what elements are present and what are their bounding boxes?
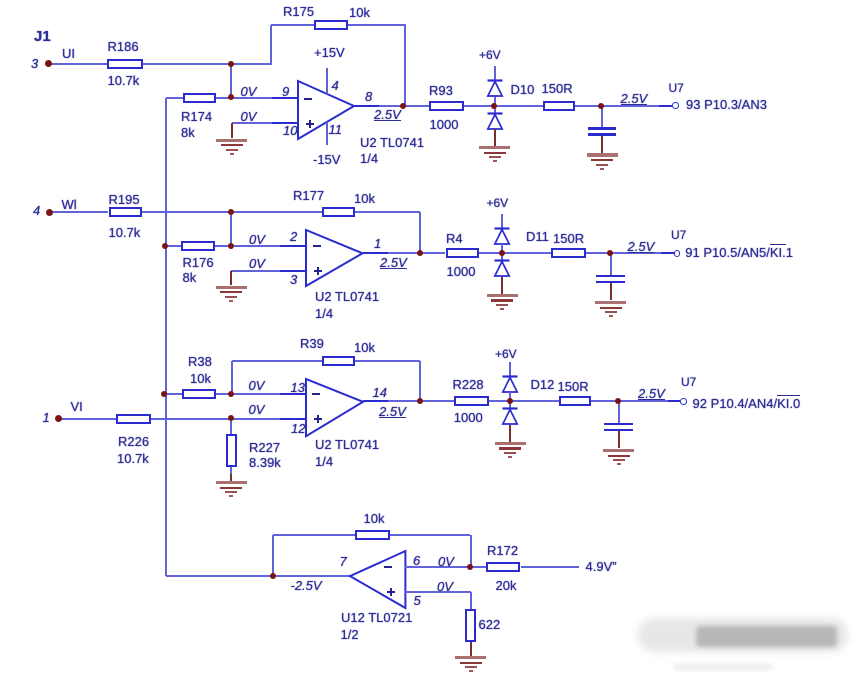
- diode D11 upper: [493, 227, 511, 246]
- ground stem (U2 pin10): [231, 123, 233, 139]
- wire node A1 down to inv input: [230, 64, 232, 98]
- pin stub U2.8: [354, 105, 379, 107]
- minus mark U12: [384, 566, 392, 568]
- label D11: [526, 230, 549, 243]
- wire R227 to ground: [230, 467, 232, 474]
- pin number 9: [282, 85, 289, 98]
- wire to output pad S1: [601, 105, 672, 107]
- pin number 8: [365, 90, 372, 103]
- ground (D12): [495, 442, 526, 445]
- net -15V: [313, 153, 340, 166]
- wire ground to U2 pin 3: [231, 270, 306, 272]
- wire U12 pin 6: [405, 566, 470, 568]
- value 10k (R175): [349, 6, 370, 19]
- pin number 12: [291, 422, 305, 435]
- value 10k (S4): [364, 512, 385, 525]
- net 0V (pin2): [249, 233, 265, 246]
- op-amp U12 TL0721: [347, 548, 408, 611]
- wire node to D12 lower: [509, 401, 511, 409]
- wire to R228: [420, 400, 453, 402]
- label 91 P10.5/AN5/KI.1: [685, 246, 793, 259]
- wire feedback right down: [470, 535, 472, 567]
- wire feedback down to output node: [404, 25, 406, 106]
- wire to output pad S2: [610, 252, 674, 254]
- wire D10 upper to node: [494, 97, 496, 106]
- pin number 13: [291, 381, 305, 394]
- wire feedback top left: [273, 534, 355, 536]
- label U2 TL0741: [360, 136, 424, 149]
- power pin 11 (-15V): [326, 122, 328, 145]
- power pin 4 (+15V): [326, 68, 328, 94]
- net UI: [62, 47, 75, 60]
- pin stub U2.13: [280, 393, 306, 395]
- pin stub U2.9: [272, 97, 298, 99]
- wire D11 upper to node: [501, 244, 503, 253]
- ground (cap S3): [603, 449, 634, 452]
- wire R39 right: [355, 360, 420, 362]
- net +6V (D12): [495, 348, 517, 360]
- label R227: [249, 441, 280, 454]
- wire +6V to D10: [494, 66, 496, 80]
- pin stub U2.12: [280, 418, 306, 420]
- pin number 10: [283, 124, 297, 137]
- wire R226 to node B3: [151, 418, 232, 420]
- net U7 (S1): [669, 82, 684, 94]
- resistor R227: [226, 434, 237, 468]
- label U2 TL0741 (S3): [315, 438, 379, 451]
- net Wl: [62, 198, 77, 211]
- ground (D11): [487, 294, 518, 297]
- net 0V (pin3): [249, 257, 265, 270]
- value 10k (R38): [190, 372, 211, 385]
- net 2.5V (U2C out): [379, 406, 406, 418]
- net VI: [71, 400, 83, 413]
- value 150R (S3): [558, 380, 589, 393]
- wire rail to R174: [166, 97, 183, 99]
- pin stub U2.3: [280, 270, 306, 272]
- ground stem (U2 pin3): [230, 271, 232, 285]
- label R39: [300, 337, 324, 350]
- label U12 TL0721: [341, 611, 412, 624]
- pin stub U2.2: [280, 245, 306, 247]
- diode D12 lower: [501, 407, 519, 426]
- value 8.39k (R227): [249, 456, 281, 469]
- diode D10 lower: [486, 112, 504, 131]
- net +6V (D11): [487, 197, 509, 209]
- wire node A2 down: [230, 212, 232, 246]
- wire J1.1 to R226: [58, 418, 116, 420]
- junction D11 node: [499, 250, 505, 256]
- junction output node S3: [417, 398, 423, 404]
- label R4: [446, 232, 463, 245]
- capacitor C (S3): [618, 401, 620, 422]
- ground (cap S1): [587, 153, 618, 156]
- ground stem (R227): [230, 474, 232, 481]
- junction node A2: [228, 209, 234, 215]
- ground (R227): [216, 481, 247, 484]
- label R186: [108, 40, 139, 53]
- wire to R93: [403, 105, 429, 107]
- ground (U2 pin10): [216, 139, 247, 142]
- value 8k (R174): [181, 126, 195, 139]
- value 1000 (R228): [454, 411, 483, 424]
- wire to R175 left: [271, 24, 314, 26]
- wire U2A output: [354, 105, 403, 107]
- label 1/4 (S2): [315, 307, 333, 320]
- pin stub U2.1: [363, 252, 389, 254]
- junction rail-R38: [161, 391, 167, 397]
- resistor R195: [109, 207, 142, 217]
- resistor R93: [429, 101, 464, 111]
- net +6V (D10): [479, 49, 501, 61]
- ground (R622): [455, 656, 486, 659]
- wire feedback down S2: [419, 212, 421, 253]
- pin stub pad 93: [659, 105, 672, 107]
- net U7 (S2): [671, 229, 686, 241]
- wire node to R172: [470, 566, 486, 568]
- capacitor C (S1): [601, 106, 603, 127]
- minus mark U2B: [313, 245, 321, 247]
- resistor R176: [181, 241, 214, 251]
- wire node B3 to R227: [230, 419, 232, 434]
- ground stem (D10): [494, 129, 496, 146]
- pin dot J1.4: [46, 209, 53, 216]
- wire R93 to D10 node: [464, 105, 495, 107]
- plus mark U2C: [314, 418, 322, 420]
- net 4.9V: [586, 560, 617, 573]
- value 1000 (R4): [447, 265, 476, 278]
- ground stem (D11): [501, 277, 503, 294]
- op-amp U2C TL0741: [303, 376, 366, 439]
- junction cap node S1: [598, 103, 604, 109]
- value 150R (S2): [553, 232, 584, 245]
- pin number 4: [332, 79, 339, 92]
- label R177: [293, 189, 324, 202]
- value 10.7k (R195): [109, 226, 141, 239]
- op-amp U2A TL0741: [295, 78, 357, 142]
- value 10k (R177): [354, 192, 375, 205]
- junction node A1: [228, 61, 234, 67]
- resistor R38: [182, 389, 216, 399]
- diode D11 lower: [493, 259, 511, 278]
- pin dot J1.3: [45, 60, 52, 67]
- junction output node S4: [270, 573, 276, 579]
- pin number 4 (J1): [33, 204, 40, 217]
- capacitor C (S2): [610, 253, 612, 274]
- plus mark U2B: [314, 270, 322, 272]
- resistor 150R (S1): [543, 101, 575, 111]
- pin stub U2.14: [363, 400, 388, 402]
- wire D12 node to 150R: [510, 400, 559, 402]
- wire R174 to node B1: [216, 97, 231, 99]
- net 0V (pin9): [241, 85, 257, 98]
- wire to U12 output apex: [273, 575, 350, 577]
- junction rail-R176: [162, 243, 168, 249]
- wire feedback top right: [390, 534, 471, 536]
- value 622: [479, 618, 501, 631]
- wire R172 to 4.9V: [521, 566, 579, 568]
- ground (cap S2): [595, 301, 626, 304]
- resistor 150R (S3): [559, 396, 591, 406]
- value 20k (R172): [496, 579, 517, 592]
- pin number 2: [290, 230, 297, 243]
- resistor 150R (S2): [551, 248, 586, 258]
- wire node to D10 lower: [494, 106, 496, 114]
- plus mark U2A: [306, 123, 314, 125]
- op-amp U2B TL0741: [303, 227, 365, 289]
- decorative watermark: [638, 618, 848, 652]
- wire R38 to node C3: [216, 393, 231, 395]
- value 1000 (R93): [430, 118, 459, 131]
- junction cap node S3: [615, 398, 621, 404]
- pin dot J1.1: [55, 415, 62, 422]
- wire U12 pin 5: [405, 591, 471, 593]
- value 10k (R39): [354, 341, 375, 354]
- wire R4 to D11 node: [479, 252, 502, 254]
- wire ground to U2 pin 10: [232, 122, 298, 124]
- wire R186 to node A1: [143, 63, 272, 65]
- wire D11 node to 150R: [502, 252, 551, 254]
- junction pin6 node: [467, 564, 473, 570]
- value 10.7k (R186): [108, 74, 140, 87]
- value 150R (S1): [542, 82, 573, 95]
- resistor R226: [116, 414, 151, 424]
- label D10: [511, 83, 535, 96]
- wire J1.4 to R195: [49, 211, 108, 213]
- junction D10 node: [491, 103, 497, 109]
- net 0V (pin10): [241, 110, 257, 123]
- junction node C3: [228, 391, 234, 397]
- junction output node S1: [400, 103, 406, 109]
- wire node C3 to U2 pin 13: [231, 393, 306, 395]
- wire R176 to node B2: [215, 245, 232, 247]
- resistor R172: [486, 562, 521, 572]
- net 2.5V (U2B out): [380, 257, 407, 269]
- junction node B1: [228, 94, 234, 100]
- wire node C3 up to R39: [231, 361, 233, 394]
- net 0V (pin12): [249, 403, 265, 416]
- net +15V: [314, 46, 345, 59]
- label 1/4 (S3): [315, 455, 333, 468]
- wire node B2 to U2 pin 2: [231, 245, 306, 247]
- pin number 1 (J1): [43, 411, 50, 424]
- plus mark U12: [387, 591, 395, 593]
- pin number 11: [329, 123, 343, 136]
- pin number 6: [413, 554, 420, 567]
- ground stem (D12): [509, 425, 511, 442]
- diode D10 upper: [486, 79, 504, 98]
- resistor R39: [322, 356, 356, 366]
- label R93: [429, 84, 453, 97]
- output pad 93: [672, 102, 679, 109]
- label D12: [531, 378, 555, 391]
- pin number 7: [340, 555, 347, 568]
- label R195: [109, 193, 140, 206]
- value 8k (R176): [183, 271, 197, 284]
- wire feedback down S3: [419, 361, 421, 401]
- label 1/2: [341, 628, 359, 641]
- label 1/4: [360, 152, 378, 165]
- pin stub U2.10: [272, 122, 298, 124]
- wire R228 to D12 node: [489, 400, 510, 402]
- value 10.7k (R226): [117, 452, 149, 465]
- label U2 TL0741 (S2): [315, 290, 379, 303]
- wire 150R to cap node S3: [591, 400, 618, 402]
- wire J1.3 to R186: [49, 63, 108, 65]
- wire R177 right: [355, 211, 420, 213]
- junction cap node S2: [607, 250, 613, 256]
- net 2.5V (out S2): [628, 241, 655, 253]
- wire rail to U12 output: [166, 575, 273, 577]
- net 2.5V (out S3): [638, 388, 665, 400]
- pin number 5: [414, 594, 421, 607]
- pin number 3 (J1): [31, 57, 38, 70]
- net 2.5V (U2A out): [374, 109, 401, 121]
- output pad 91: [674, 250, 681, 257]
- output pad 92: [680, 398, 687, 405]
- label R176: [183, 256, 214, 269]
- resistor R175: [314, 20, 349, 30]
- resistor R228: [454, 396, 489, 406]
- net 0V (pin6): [438, 555, 454, 568]
- label R175: [283, 5, 314, 18]
- wire to output pad S3: [618, 400, 680, 402]
- junction node B2: [228, 243, 234, 249]
- label R172: [487, 544, 518, 557]
- label R228: [453, 378, 484, 391]
- minus mark U2C: [312, 393, 320, 395]
- net U7 (S3): [681, 376, 696, 388]
- wire to R4: [420, 252, 445, 254]
- ground (D10): [479, 146, 510, 149]
- ground stem (R622): [470, 642, 472, 656]
- net 0V (pin13): [249, 379, 265, 392]
- resistor R4: [446, 248, 480, 258]
- wire U2B output: [363, 252, 421, 254]
- junction D12 node: [507, 398, 513, 404]
- wire R175 right: [348, 24, 406, 26]
- wire node B1 to U2 pin 9: [231, 97, 298, 99]
- pin stub pad 91: [661, 252, 674, 254]
- label R174: [181, 110, 212, 123]
- net -2.5V: [291, 579, 322, 592]
- pin stub pad 92: [668, 400, 680, 402]
- junction output node S2: [417, 250, 423, 256]
- wire 150R to cap node S2: [586, 252, 610, 254]
- wire pin5 down to R622: [470, 592, 472, 609]
- pin number 1: [374, 237, 381, 250]
- wire to R39 left: [232, 360, 322, 362]
- wire rail to R38: [166, 393, 182, 395]
- connector J1: [34, 29, 51, 44]
- net 2.5V (out S1): [621, 93, 648, 105]
- wire R195 to R177 (node A2): [142, 211, 322, 213]
- resistor R186: [107, 59, 142, 69]
- wire node to D11 lower: [501, 253, 503, 261]
- wire D12 upper to node: [509, 392, 511, 401]
- wire feedback left S4: [272, 535, 274, 576]
- label 93 P10.3/AN3: [686, 98, 767, 111]
- junction node B3: [228, 415, 234, 421]
- resistor 10k (S4): [355, 530, 390, 540]
- label R226: [118, 435, 149, 448]
- wire node A1 up to R175: [270, 25, 272, 64]
- wire rail to R176: [166, 245, 181, 247]
- label R38: [188, 355, 212, 368]
- resistor R174: [183, 93, 217, 103]
- label 92 P10.4/AN4/KI.0: [693, 397, 801, 410]
- wire D10 node to 150R: [495, 105, 543, 107]
- wire 150R to cap node: [575, 105, 602, 107]
- resistor 622: [465, 609, 476, 642]
- net 0V (pin5): [437, 580, 453, 593]
- wire -2.5V rail vertical: [165, 98, 167, 577]
- wire +6V to D12: [509, 362, 511, 376]
- wire node B3 to U2 pin 12: [231, 418, 306, 420]
- resistor R177: [322, 207, 356, 217]
- diode D12 upper: [501, 375, 519, 394]
- ground (U2 pin3): [216, 286, 247, 289]
- minus mark U2A: [304, 98, 312, 100]
- pin number 3: [290, 273, 297, 286]
- pin number 14: [373, 386, 387, 399]
- wire +6V to D11: [501, 214, 503, 228]
- wire U2C output: [363, 400, 420, 402]
